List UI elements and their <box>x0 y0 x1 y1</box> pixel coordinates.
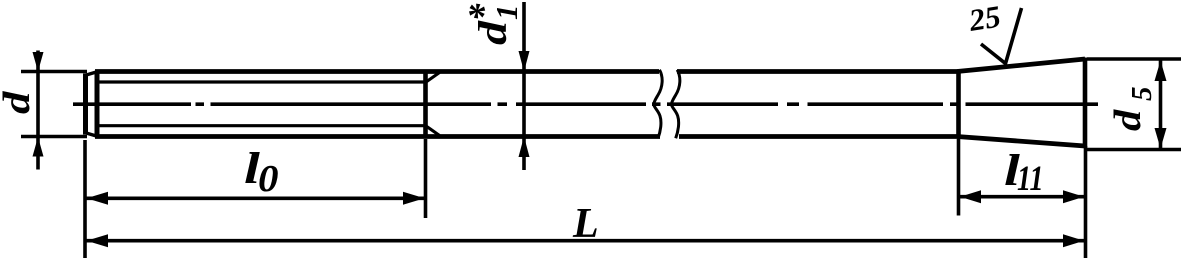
stud left end face <box>83 74 88 135</box>
arrowhead d5 top <box>1155 61 1167 82</box>
taper angle leader lines 25 <box>981 8 1022 64</box>
extension line right for l0 <box>424 139 428 218</box>
taper bottom edge <box>957 137 1085 147</box>
centerline of stud (dash-dot axis) <box>73 102 1098 106</box>
arrowhead l11 right <box>1063 190 1084 203</box>
stud bottom edge (right of break) <box>679 134 959 139</box>
extension line bottom for dimension d <box>21 135 87 139</box>
svg-text:*: * <box>466 0 486 38</box>
dimension line d5 <box>1159 60 1163 149</box>
taper top edge <box>957 59 1085 72</box>
extension line right for l11 and L <box>1084 146 1088 258</box>
stud top edge (left of break) <box>95 69 659 74</box>
svg-text:0: 0 <box>258 157 279 199</box>
arrowhead L right <box>1063 234 1084 247</box>
thread end vertical line <box>423 72 428 137</box>
dimension line l11 <box>959 195 1086 199</box>
arrowhead d1 bottom <box>519 137 530 158</box>
thread runout diagonal bottom <box>426 126 440 136</box>
svg-text:11: 11 <box>1017 158 1044 198</box>
stud top edge (right of break) <box>677 69 959 74</box>
arrowhead d5 bottom <box>1155 128 1167 149</box>
arrowhead L left <box>87 234 109 247</box>
taper start vertical line <box>956 72 961 137</box>
svg-text:L: L <box>572 201 599 247</box>
dimension line d <box>36 51 40 170</box>
svg-text:d: d <box>0 90 37 114</box>
arrowhead d top <box>33 52 44 72</box>
thread runout diagonal top <box>426 73 440 83</box>
extension line left for l11 <box>957 139 961 216</box>
arrowhead l0 right <box>403 192 425 205</box>
break line right wave <box>671 70 679 139</box>
dimension line d1 <box>522 2 526 170</box>
arrowhead l11 left <box>960 190 981 203</box>
stud bottom edge (left of break) <box>95 134 660 139</box>
thread minor diameter top line <box>99 80 424 83</box>
arrowhead d bottom <box>33 137 44 157</box>
svg-text:d: d <box>1106 109 1148 131</box>
chamfer edge line <box>95 72 100 137</box>
svg-text:1: 1 <box>489 5 524 21</box>
arrowhead d1 top <box>519 51 530 72</box>
break line left wave <box>654 70 662 139</box>
svg-text:25: 25 <box>966 0 1003 38</box>
extension line top for d5 <box>1087 57 1181 61</box>
extension line top for dimension d <box>21 70 87 74</box>
extension line left for l0 and L <box>83 140 87 258</box>
chamfer diagonal bottom <box>85 133 99 137</box>
svg-text:5: 5 <box>1126 87 1158 102</box>
extension line bottom for d5 <box>1087 148 1181 152</box>
stud right end face <box>1083 58 1088 148</box>
chamfer diagonal top <box>85 72 99 76</box>
dimension line L <box>85 239 1086 243</box>
arrowhead l0 left <box>87 192 109 205</box>
thread minor diameter bottom line <box>99 124 424 127</box>
dimension line l0 <box>85 197 426 201</box>
